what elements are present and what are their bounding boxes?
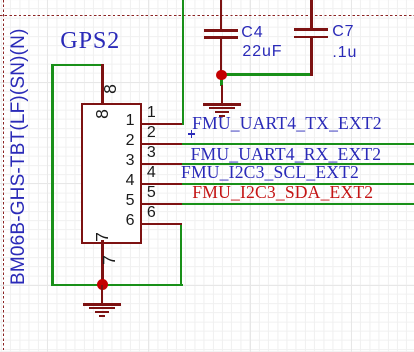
- sheet border dashed horizontal: [0, 15, 414, 16]
- pin 4 name (inside): [104, 173, 135, 189]
- pin6 stub: [141, 223, 182, 226]
- wire pin3 net: [179, 163, 414, 166]
- capacitor C4 lead top: [220, 0, 223, 29]
- sheet border dashed vertical: [3, 0, 4, 352]
- pin 5 name (inside): [104, 193, 135, 209]
- ground bottom bar3: [95, 311, 109, 313]
- pin 3 number (outside): [147, 145, 156, 161]
- pin 2 number (outside): [147, 125, 156, 141]
- wire pin5 net: [179, 203, 414, 206]
- grid major v4: [351, 0, 352, 352]
- ground bottom stem: [101, 285, 103, 305]
- grid major h1: [0, 82, 414, 83]
- ground top bar2: [209, 107, 235, 109]
- capacitor C7 lead top: [310, 0, 313, 29]
- pin 2 name (inside): [104, 133, 135, 149]
- wire pin4 net: [179, 183, 414, 186]
- grid major h2: [0, 183, 414, 184]
- ground bottom bar1: [83, 303, 121, 305]
- grid major v3: [250, 0, 251, 352]
- pin 4 number (outside): [147, 165, 156, 181]
- net label FMU_UART4_TX_EXT2: [192, 115, 382, 133]
- grid major h3: [0, 285, 414, 286]
- capacitor C4 value 22uF: [242, 44, 282, 60]
- capacitor C4 plate top: [204, 29, 238, 32]
- pin5 stub: [141, 203, 182, 206]
- connector GPS2 body: [81, 103, 142, 244]
- capacitor C7 plate bottom: [294, 36, 329, 39]
- pin8 lead: [101, 64, 104, 105]
- wire bottom run: [51, 284, 183, 287]
- pin 1 name (inside): [104, 113, 135, 129]
- cross marker: [188, 133, 195, 135]
- wire cap link: [220, 73, 312, 76]
- pin 5 number (outside): [147, 185, 156, 201]
- capacitor C4 lead bottom: [220, 39, 223, 73]
- net label FMU_I2C3_SDA_EXT2: [192, 184, 373, 202]
- pin 8 name (inside, rotated): [93, 105, 111, 123]
- grid major v1: [47, 0, 48, 352]
- ground top bar3: [215, 111, 229, 113]
- pin 6 name (inside): [104, 213, 135, 229]
- pin4 stub: [141, 183, 182, 186]
- pin 7 name (inside, rotated): [93, 228, 111, 246]
- ground bottom bar4: [99, 315, 105, 317]
- capacitor C7 plate top: [294, 28, 329, 31]
- pin2 stub: [141, 143, 182, 146]
- pin 6 number (outside): [147, 205, 156, 221]
- capacitor C4 designator: [241, 25, 263, 41]
- wire top-left horizontal: [51, 64, 104, 67]
- pin7 lead: [101, 240, 104, 285]
- capacitor C7 lead bottom: [310, 38, 313, 76]
- capacitor C7 value .1u: [332, 45, 357, 61]
- pin1 stub: [141, 123, 182, 126]
- ground top bar1: [203, 103, 241, 105]
- net label FMU_I2C3_SCL_EXT2: [181, 164, 359, 182]
- wire pin1 riser up: [182, 0, 185, 125]
- pin 3 name (inside): [104, 153, 135, 169]
- capacitor C7 designator: [332, 24, 354, 40]
- wire pin6 drop: [180, 223, 183, 287]
- net label FMU_UART4_RX_EXT2: [191, 146, 382, 164]
- pin3 stub: [141, 163, 182, 166]
- wire pin2 net: [179, 143, 414, 146]
- grid major v2: [148, 0, 149, 352]
- ground top stem: [221, 85, 223, 105]
- designator GPS2: [60, 29, 120, 53]
- ground top bar4: [219, 115, 225, 117]
- pin 1 number (outside): [147, 105, 156, 121]
- wire left vertical: [51, 64, 54, 287]
- ground bottom bar2: [89, 307, 115, 309]
- part number vertical text BM06B-GHS-TBT(LF)(SN)(N): [10, 28, 28, 285]
- pin 8 number (outside, rotated): [101, 80, 119, 98]
- junction dot bottom: [97, 279, 108, 290]
- wire dot to gnd stub: [220, 75, 223, 86]
- capacitor C4 plate bottom: [204, 36, 238, 39]
- junction dot top: [216, 70, 227, 81]
- pin 7 number (outside, rotated): [100, 251, 118, 269]
